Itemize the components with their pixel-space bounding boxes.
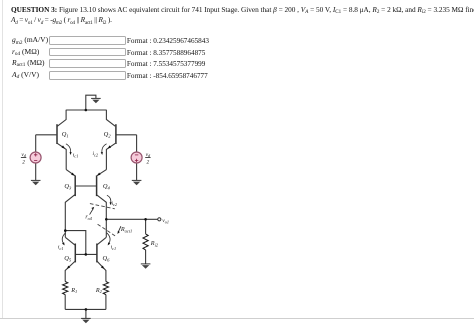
wire Q4 emitter diag xyxy=(97,170,106,176)
pointer ro4 xyxy=(90,209,94,215)
wire Q4 collector xyxy=(97,195,107,238)
node Ri2 tap xyxy=(144,218,147,221)
wire bottom rail xyxy=(65,308,106,310)
arrowhead ic2 top xyxy=(101,152,103,155)
open terminal vo1 xyxy=(158,218,161,221)
arrow arc ic1 top xyxy=(66,144,71,154)
wire L mirror link xyxy=(65,231,86,255)
input row 4 xyxy=(12,70,39,79)
question line 2 (formula) xyxy=(11,15,112,24)
bottom table border xyxy=(0,318,474,319)
wire Q1 base xyxy=(36,134,57,136)
node top rail junction xyxy=(85,109,88,112)
svg-text:2: 2 xyxy=(22,160,25,166)
svg-text:ic1: ic1 xyxy=(111,245,117,251)
arrow arc ic1 at Q6 xyxy=(107,233,110,245)
transistor Q4 bar xyxy=(96,175,98,196)
left table border xyxy=(2,0,3,319)
svg-text:R2: R2 xyxy=(95,287,103,294)
wire bottom ground stem xyxy=(85,309,87,318)
transistor Q5 bar xyxy=(74,244,76,263)
arrow arc ic2 at Q4 xyxy=(107,195,111,203)
wire Q1 emitter xyxy=(57,143,66,169)
wire Q3-Q4 base rail xyxy=(75,185,96,187)
wire R2 bottom lead xyxy=(105,295,107,310)
wire rail to top ground xyxy=(86,95,96,110)
node Q5-Q6 base junction xyxy=(85,253,88,256)
svg-text:ic1: ic1 xyxy=(73,152,79,158)
arrow Q5 emitter xyxy=(67,266,70,269)
wire Q3 collector xyxy=(65,195,74,238)
svg-text:Q2: Q2 xyxy=(104,131,112,138)
transistor Q6 bar xyxy=(96,244,98,263)
wire right source leads xyxy=(136,135,138,181)
fraction bars for vd/2 xyxy=(21,156,151,158)
svg-text:ic1: ic1 xyxy=(58,245,64,251)
wire Q1 collector riser xyxy=(57,110,66,126)
svg-text:Ri2: Ri2 xyxy=(150,240,159,247)
svg-text:Q1: Q1 xyxy=(62,131,69,138)
pointer Ract1 xyxy=(118,226,121,232)
svg-text:R1: R1 xyxy=(70,287,77,294)
ground left source xyxy=(31,180,41,185)
dashed cut Ract1 xyxy=(98,224,117,236)
ground right source xyxy=(132,180,142,185)
input row 2 xyxy=(12,47,39,56)
input row 1 xyxy=(12,35,48,44)
node Q3 collector junction xyxy=(64,229,67,232)
transistor Q1 bar xyxy=(56,124,58,144)
wire left source leads xyxy=(35,135,37,181)
arrowhead ic1 at Q6 xyxy=(108,242,111,245)
arrow Q4 emitter (PNP) xyxy=(97,173,101,176)
resistor Ri2 xyxy=(143,234,148,250)
input row 3 xyxy=(12,58,44,67)
arrowhead ic1 at Q5 xyxy=(62,242,65,245)
source vd/2 left xyxy=(30,152,41,163)
arrowhead ic2 at Q4 xyxy=(110,202,112,205)
arrow Q6 emitter xyxy=(101,266,104,269)
wire Q5-Q6 base rail xyxy=(75,253,97,255)
wire Q2 base xyxy=(116,134,136,136)
node vo1 at Q4 collector xyxy=(105,218,108,221)
svg-text:ic2: ic2 xyxy=(112,201,118,207)
ground Ri2 xyxy=(141,264,151,269)
node bottom rail junction xyxy=(85,308,88,311)
svg-text:ic2: ic2 xyxy=(93,151,99,157)
transistor Q3 bar xyxy=(74,175,76,196)
resistor R1 xyxy=(63,282,68,295)
svg-text:Ract1: Ract1 xyxy=(120,226,132,233)
dashed cut ro4 xyxy=(90,204,115,209)
wire Q3 emitter diag xyxy=(66,170,75,176)
svg-text:Q6: Q6 xyxy=(103,255,111,262)
question line 1 xyxy=(11,5,474,14)
svg-text:2: 2 xyxy=(147,160,150,166)
wire Q5 emitter xyxy=(65,261,75,281)
arrow arc ic2 top xyxy=(102,144,107,154)
svg-text:vo1: vo1 xyxy=(162,218,169,224)
arrow Q2 emitter xyxy=(108,145,112,148)
wire output xyxy=(106,218,157,220)
arrow Q1 emitter xyxy=(62,145,66,148)
wire R1 bottom lead xyxy=(64,295,66,310)
wire top rail xyxy=(66,109,106,111)
wire Q6 collector diag xyxy=(97,237,106,245)
arrow arc ic1 at Q5 xyxy=(62,233,65,245)
source vd/2 right xyxy=(131,152,142,163)
arrowhead ic1 top xyxy=(70,152,72,155)
ground top xyxy=(91,98,101,103)
arrow Q3 emitter (PNP) xyxy=(71,173,75,176)
transistor Q2 bar xyxy=(115,124,117,144)
svg-text:Q4: Q4 xyxy=(103,183,111,190)
wire Q2 collector riser xyxy=(106,110,115,126)
wire Q6 emitter xyxy=(97,261,106,281)
svg-text:Q5: Q5 xyxy=(64,255,72,262)
ground bottom xyxy=(81,318,91,323)
wire Q5 collector diag xyxy=(65,237,75,245)
resistor R2 xyxy=(103,282,108,295)
wire Ri2 leads xyxy=(145,219,147,264)
wire Q2 emitter xyxy=(106,143,115,169)
svg-text:ro4: ro4 xyxy=(85,215,91,221)
svg-text:Q3: Q3 xyxy=(64,183,72,190)
